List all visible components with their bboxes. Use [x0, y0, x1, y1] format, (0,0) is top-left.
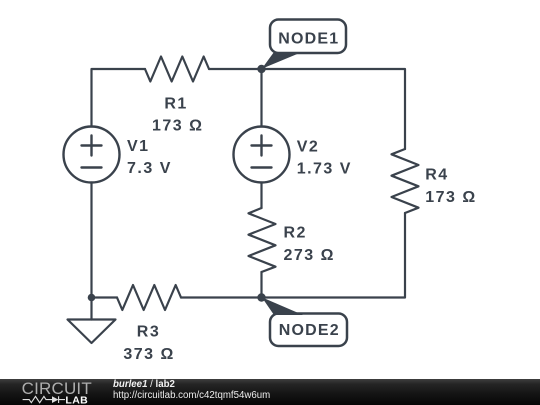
credit text [113, 379, 175, 390]
value R1 173 ohm [152, 118, 203, 135]
wire: NODE1 to V2 top [260, 69, 262, 127]
svg-text:V1: V1 [127, 138, 150, 155]
svg-text:LAB: LAB [65, 395, 88, 405]
url text [113, 390, 270, 401]
svg-text:NODE2: NODE2 [279, 322, 340, 339]
svg-text:7.3 V: 7.3 V [127, 160, 172, 177]
node label NODE1 box [270, 20, 346, 54]
wire: V2 bottom to R2 [260, 183, 262, 209]
wire: ground junction to R3 [92, 296, 118, 298]
wire: R3 to NODE2 junction [181, 296, 262, 298]
value V1 7.3 V [127, 160, 172, 177]
svg-text:1.73 V: 1.73 V [297, 161, 352, 178]
label V2 [297, 138, 320, 155]
label R2 [284, 225, 307, 242]
svg-text:R4: R4 [425, 167, 448, 184]
value R4 173 ohm [425, 189, 476, 206]
wire: V1 top lead and top-left corner to R1 [92, 69, 146, 127]
label R3 [137, 324, 160, 341]
ground [68, 320, 116, 344]
svg-text:173 Ω: 173 Ω [152, 118, 203, 135]
resistor R4 [392, 149, 419, 213]
wire: R4 to bottom-right corner to NODE2 junction [262, 213, 406, 298]
resistor R1 [145, 57, 209, 82]
resistor R3 [117, 285, 181, 310]
svg-text:V2: V2 [297, 138, 320, 155]
wire: V1 bottom to ground junction [90, 183, 92, 298]
resistor R2 [249, 208, 276, 272]
label R4 [425, 167, 448, 184]
label R1 [164, 95, 187, 112]
voltage source V1 [64, 127, 120, 183]
voltage source V2 [234, 127, 290, 183]
node label NODE1 pointer [262, 52, 302, 69]
wire: R1 to NODE1 junction [209, 68, 262, 70]
value V2 1.73 V [297, 161, 352, 178]
svg-text:373 Ω: 373 Ω [123, 346, 174, 363]
value R2 273 ohm [284, 247, 335, 264]
svg-text:273 Ω: 273 Ω [284, 247, 335, 264]
svg-text:NODE1: NODE1 [278, 31, 339, 48]
node label NODE2 text [279, 322, 340, 339]
label V1 [127, 138, 150, 155]
wire: NODE1 junction to top-right corner down to R4 [262, 69, 406, 149]
junction dot node NODE2 [257, 293, 265, 301]
svg-text:173 Ω: 173 Ω [425, 189, 476, 206]
junction dot at ground branch [88, 294, 96, 302]
wire: ground junction stub down [90, 298, 92, 320]
junction dot node NODE1 [257, 65, 265, 73]
node label NODE2 pointer [262, 297, 303, 315]
node label NODE2 box [270, 314, 347, 347]
wire: R2 to NODE2 junction [260, 272, 262, 298]
svg-text:R3: R3 [137, 324, 160, 341]
value R3 373 ohm [123, 346, 174, 363]
svg-text:R2: R2 [284, 225, 307, 242]
footer bar [0, 379, 540, 405]
svg-text:R1: R1 [164, 95, 187, 112]
node label NODE1 text [278, 31, 339, 48]
CircuitLab logo [10, 379, 110, 405]
